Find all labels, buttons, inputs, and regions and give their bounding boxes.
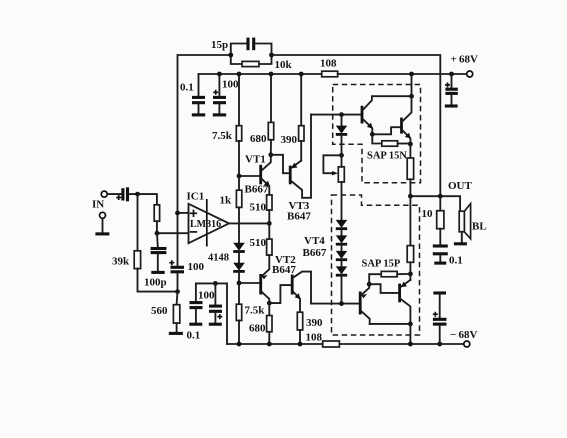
svg-text:BL: BL — [472, 221, 487, 233]
node: SAP15P collector tie to -68V — [408, 322, 413, 345]
terminal IN ground — [100, 212, 106, 232]
transistor Q-VT4 — [269, 272, 311, 313]
transistor Q-VT1 — [261, 155, 271, 195]
ground bar at IN — [95, 232, 109, 235]
transistor Q-SAP15P-a — [360, 284, 370, 324]
wire: node B to output rail, down to OUT node — [272, 55, 441, 196]
svg-text:100: 100 — [198, 290, 215, 302]
ground for R-560 — [169, 332, 183, 335]
label IC1 — [187, 191, 205, 203]
junction dots bottom bus — [237, 342, 443, 347]
wire: top feedback wire from node A left to rail corner — [178, 55, 231, 266]
label VT4 — [304, 235, 325, 247]
svg-text:7.5k: 7.5k — [212, 130, 233, 142]
resistor R-be SAP15P — [369, 271, 410, 284]
label BL — [472, 221, 487, 233]
label 4148 — [208, 253, 229, 264]
node: SAP15N emitter junction — [408, 142, 413, 147]
ground for C-100 lower — [209, 323, 222, 326]
svg-text:+ 68V: + 68V — [451, 54, 478, 66]
wire: lower drive line to SAP15P base — [311, 303, 360, 305]
terminal IN — [101, 191, 121, 197]
wire: op-amp output to 510 junction — [229, 221, 272, 226]
capacitor C-in coupling — [116, 187, 157, 205]
label VT1 — [245, 154, 266, 166]
resistor R-510 lower — [267, 223, 272, 255]
capacitor C+68 electrolytic — [445, 72, 458, 105]
svg-text:− 68V: − 68V — [450, 329, 477, 341]
label B667 VT4 — [303, 247, 327, 259]
capacitor C-0.1 top decoupling — [192, 74, 205, 113]
label IN — [92, 199, 104, 211]
node: trimmer top — [339, 153, 344, 158]
label 100 lower — [198, 290, 215, 302]
wire: +68V decoupled bus (left part) — [199, 73, 322, 75]
svg-text:VT4: VT4 — [304, 235, 325, 247]
ground for speaker — [454, 242, 467, 245]
diode chain D3 — [336, 251, 347, 267]
diode chain D1 — [336, 220, 347, 236]
node N1: VT1 base / 7.5k / 1k junction — [237, 174, 260, 179]
wire: T1P collector to bottom node — [370, 323, 411, 325]
node: SAP15N T1 emitter — [370, 132, 375, 137]
svg-text:100: 100 — [222, 79, 239, 91]
svg-text:IC1: IC1 — [187, 191, 205, 203]
svg-text:4148: 4148 — [208, 253, 229, 264]
svg-text:7.5k: 7.5k — [245, 305, 266, 317]
svg-text:VT1: VT1 — [245, 154, 266, 166]
node: SAP15N collector tie to +68V — [409, 72, 414, 99]
node: SAP15N base / bias diode — [339, 112, 344, 117]
label OUT — [448, 180, 473, 192]
node: VT2 base junction — [237, 281, 260, 286]
label 108 bottom — [306, 332, 323, 344]
resistor R-510 upper — [267, 195, 272, 224]
svg-text:510: 510 — [250, 202, 267, 214]
svg-text:100p: 100p — [144, 277, 167, 289]
resistor R-560 — [173, 292, 179, 332]
label SAP 15P — [362, 259, 401, 270]
resistor R-in (to inverting input) — [154, 205, 159, 236]
svg-text:OUT: OUT — [448, 180, 473, 192]
svg-text:B647: B647 — [272, 264, 296, 276]
node B junction — [269, 53, 274, 58]
node: VT1 collector / 680 / VT3 base — [268, 152, 273, 157]
resistor R-680 lower — [267, 303, 272, 344]
capacitor C-100p — [151, 233, 167, 271]
label +68V — [451, 54, 478, 66]
label -68V — [450, 329, 477, 341]
transistor Q-VT3 — [271, 115, 311, 198]
transistor Q-SAP15N-b — [402, 96, 412, 144]
label 390 lower — [306, 317, 323, 329]
svg-text:100: 100 — [188, 261, 205, 273]
wire: negative decoupled bus — [196, 283, 227, 344]
ground for C-100p — [151, 271, 164, 274]
svg-text:390: 390 — [306, 317, 323, 329]
capacitor C-0.1 lower — [190, 283, 203, 322]
diode D-4148 b — [233, 263, 245, 283]
resistor R-680 upper — [268, 72, 273, 155]
label 0.1 top — [180, 82, 194, 94]
label 1k — [220, 195, 233, 207]
label 7.5k lower — [245, 305, 266, 317]
terminal -68V — [464, 341, 470, 347]
wire: bottom bus right part — [339, 343, 463, 345]
transistor Q-VT2 — [261, 255, 270, 303]
dashed box SAP15N — [333, 85, 421, 183]
label 390 upper — [281, 134, 298, 146]
label 10 — [422, 208, 434, 220]
resistor R-108 bottom — [323, 341, 340, 347]
svg-text:SAP 15N: SAP 15N — [367, 151, 407, 162]
node: VT2 collector junction — [267, 301, 272, 306]
wire: T1P emitter to T2P base — [369, 284, 399, 293]
resistor R-7.5k upper — [236, 72, 241, 176]
diode chain D2 — [336, 235, 347, 251]
svg-text:10: 10 — [422, 208, 434, 220]
svg-text:108: 108 — [320, 58, 337, 70]
svg-text:15p: 15p — [211, 39, 228, 51]
label 560 — [151, 305, 168, 317]
resistor R-7.5k lower — [236, 283, 241, 344]
wire: +68V main bus right part to terminal — [338, 73, 467, 75]
wire: bottom -68V bus — [227, 343, 323, 345]
capacitor C-68 electrolytic — [433, 293, 447, 344]
svg-text:10k: 10k — [275, 59, 293, 71]
ground for C-0.1 lower — [189, 323, 202, 326]
resistor R-emitter SAP15N — [407, 144, 413, 196]
label 510 lower — [250, 237, 267, 249]
resistor R-108 top — [322, 71, 338, 77]
capacitor C-15p loop upper branch — [231, 38, 272, 55]
label SAP 15N — [367, 151, 407, 162]
svg-text:560: 560 — [151, 305, 168, 317]
transistor Q-SAP15N-a — [362, 96, 412, 134]
resistor R-be SAP15N — [372, 134, 410, 146]
label VT2 — [275, 254, 296, 266]
svg-text:LM316: LM316 — [190, 219, 221, 230]
label B647 VT2 — [272, 264, 296, 276]
label 0.1 zobel — [449, 255, 463, 267]
capacitor C-100 lower electrolytic — [209, 281, 222, 323]
capacitor C-0.1 zobel — [433, 246, 448, 262]
wire: OUT line — [408, 194, 460, 211]
wire: T1N emitter to T2N base — [372, 127, 401, 134]
ground for C-100 top — [213, 113, 226, 116]
resistor R-emitter SAP15P — [407, 196, 413, 274]
dashed box SAP15P — [332, 195, 420, 335]
diode chain D4 — [336, 266, 347, 303]
label 680 upper — [250, 133, 267, 145]
label LM316 — [190, 219, 221, 230]
wire: upper drive line to SAP15N base — [311, 114, 361, 116]
node: SAP15P T1 emitter — [367, 282, 372, 287]
label 10k — [275, 59, 293, 71]
label 108 top — [320, 58, 337, 70]
node A junction — [228, 53, 233, 58]
node: diode chain bottom on drive line — [339, 301, 344, 306]
op-amp U-IC1 LM316 — [157, 199, 229, 247]
svg-text:1k: 1k — [220, 195, 233, 207]
node: SAP15P emitter junction — [408, 272, 413, 277]
resistor R-10 — [437, 196, 444, 244]
svg-text:B667: B667 — [245, 184, 269, 196]
label 100 top — [222, 79, 239, 91]
label 680 lower — [249, 323, 266, 335]
svg-text:0.1: 0.1 — [187, 330, 201, 342]
label 15p — [211, 39, 228, 51]
ground for C-0.1 top — [192, 113, 205, 116]
label B667 VT1 — [245, 184, 269, 196]
svg-text:0.1: 0.1 — [180, 82, 194, 94]
label 39k — [112, 256, 130, 268]
resistor R-1k — [236, 176, 241, 243]
label 0.1 lower — [187, 330, 201, 342]
resistor R-390 lower — [297, 312, 302, 344]
svg-text:39k: 39k — [112, 256, 130, 268]
svg-text:0.1: 0.1 — [449, 255, 463, 267]
label 7.5k upper — [212, 130, 233, 142]
svg-text:390: 390 — [281, 134, 298, 146]
svg-text:IN: IN — [92, 199, 104, 211]
capacitor C-100 top electrolytic — [213, 72, 226, 114]
diode D-4148 a — [233, 243, 245, 263]
resistor R-390 upper — [299, 72, 304, 161]
trimmer RP bias — [323, 155, 344, 220]
label B647 VT3 — [287, 211, 311, 223]
terminal +68V — [467, 71, 473, 77]
transistor Q-SAP15P-b — [400, 274, 411, 324]
svg-text:680: 680 — [249, 323, 266, 335]
speaker BL — [459, 204, 470, 243]
svg-text:108: 108 — [306, 332, 323, 344]
svg-text:680: 680 — [250, 133, 267, 145]
label 510 upper — [250, 202, 267, 214]
ground for C-0.1 zobel — [434, 262, 446, 265]
svg-text:SAP 15P: SAP 15P — [362, 259, 401, 270]
svg-text:B667: B667 — [303, 247, 327, 259]
resistor R-39k — [134, 194, 177, 292]
capacitor C-100 feedback electrolytic — [169, 260, 184, 294]
label VT3 — [289, 200, 310, 212]
resistor R-10k loop lower branch — [231, 55, 272, 67]
diode D-bias — [336, 115, 347, 156]
label 100 mid — [188, 261, 205, 273]
ground for C+68 — [445, 104, 458, 107]
label 100p — [144, 277, 167, 289]
svg-text:510: 510 — [250, 237, 267, 249]
svg-text:B647: B647 — [287, 211, 311, 223]
